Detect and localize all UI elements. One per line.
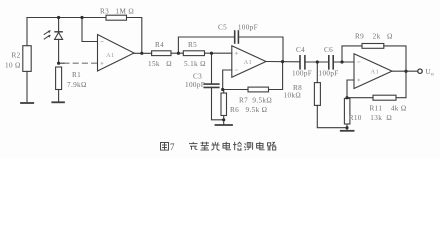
wire R10 bottom [346, 124, 348, 130]
svg-text:7: 7 [170, 142, 175, 152]
svg-text:R7 9.5kΩ: R7 9.5kΩ [239, 97, 272, 105]
wire R6 bottom to ground node [223, 116, 225, 125]
node photodiode top [57, 16, 60, 19]
wire left column to R2 [26, 18, 28, 46]
svg-text:R6 9.5k Ω: R6 9.5k Ω [230, 106, 267, 114]
resistor R1 [56, 67, 62, 90]
caption char 图 [161, 143, 169, 151]
svg-text:C6: C6 [324, 46, 333, 54]
A2 minus [235, 69, 238, 71]
wire C4 to C6 [305, 61, 329, 63]
wire A3 output [392, 70, 418, 72]
svg-text:R5: R5 [188, 41, 197, 49]
capacitor C3 [204, 84, 219, 87]
caption char 路 [268, 142, 276, 150]
wire R4 to R5 [171, 52, 183, 54]
wire R2 to ground [26, 71, 28, 102]
node A2 fb [221, 88, 224, 91]
op-amp A3 [354, 54, 392, 89]
wire R8 drop [316, 62, 318, 83]
wire R1 to ground [58, 90, 60, 102]
svg-text:C4: C4 [296, 46, 305, 54]
wire top rail [27, 17, 106, 19]
wire C6 to A3 - input [333, 61, 354, 63]
svg-text:R9 2k Ω: R9 2k Ω [355, 33, 393, 41]
wire top rail tap to opamp - input [82, 18, 98, 42]
node A2 output [281, 60, 284, 63]
caption char 完 [189, 142, 198, 150]
A1 minus [101, 41, 104, 43]
wire R11 from node [347, 97, 373, 99]
wire C5 to output rail [238, 37, 283, 62]
light arrow 1 [44, 30, 51, 34]
wire R9 branch up [342, 46, 362, 62]
resistor R7 [248, 87, 269, 92]
node C3/R6 ground [222, 118, 225, 121]
caption char 整 [201, 142, 210, 150]
wire node to opamp + input [59, 62, 64, 64]
svg-text:R1: R1 [72, 71, 81, 79]
wire C5 branch up [178, 37, 234, 53]
op-amp A1 [98, 35, 135, 72]
svg-text:5.1k Ω: 5.1k Ω [184, 60, 206, 68]
wire A3 + input down [347, 80, 354, 98]
A2 plus [235, 52, 238, 54]
A3 plus [357, 79, 360, 81]
svg-text:15k Ω: 15k Ω [148, 60, 172, 68]
op-amp A2 [232, 46, 266, 78]
node C6/R9 [340, 60, 343, 63]
resistor R11 [373, 95, 396, 100]
A3 minus [357, 61, 360, 63]
ground below R1 [52, 101, 64, 103]
resistor R4 [152, 51, 171, 56]
wire A2 - input down [223, 70, 232, 90]
caption char 光 [211, 142, 219, 150]
wire C3 bottom to ground node [212, 87, 224, 119]
wire A2 output [266, 61, 300, 63]
light arrow 2 [44, 35, 51, 39]
ground below R10 [341, 130, 354, 132]
svg-text:R4: R4 [155, 41, 164, 49]
svg-text:A1: A1 [244, 59, 253, 66]
node R4/R5 [177, 52, 180, 55]
resistor R2 [23, 46, 31, 72]
svg-text:R2: R2 [12, 52, 21, 60]
svg-text:o: o [431, 72, 434, 78]
resistor R9 [362, 44, 384, 49]
svg-text:A1: A1 [106, 52, 115, 59]
wire photodiode drop [58, 18, 60, 32]
ground below R6/C3 [216, 124, 233, 126]
node R10/R11 [345, 96, 348, 99]
wire R5 to A2 + input [205, 52, 232, 54]
svg-text:R11 4k Ω: R11 4k Ω [370, 105, 407, 113]
node C4/R8 [316, 60, 319, 63]
photodiode VD cathode bar [55, 31, 62, 33]
node A3 output [404, 70, 407, 73]
node A1 output [140, 52, 143, 55]
wire R7 to output rail [269, 62, 283, 90]
svg-text:100pF: 100pF [185, 81, 205, 89]
node feedback tap top [80, 16, 83, 19]
output terminal circle [418, 69, 422, 73]
capacitor C6 [329, 56, 333, 69]
caption char 电 (2) [257, 142, 265, 150]
caption char 7 [170, 142, 175, 152]
resistor R10 [344, 99, 350, 125]
svg-text:R10 13k Ω: R10 13k Ω [349, 114, 392, 122]
wire A1 output [134, 52, 152, 54]
capacitor C4 [300, 56, 305, 69]
resistor R3 [106, 15, 127, 20]
svg-text:C5 100pF: C5 100pF [218, 24, 258, 32]
svg-text:10kΩ: 10kΩ [284, 92, 302, 100]
wire R9 to output rail [384, 46, 406, 71]
ground below R2 [21, 102, 33, 104]
wire R6 top [223, 90, 225, 94]
svg-text:100pF: 100pF [292, 70, 312, 78]
node R5/C3 [210, 52, 213, 55]
caption 图7 完整光电检测电路 (drawn strokes, no CJK font available) [161, 142, 276, 152]
node photodiode/R1 [57, 62, 60, 65]
resistor R8 [314, 83, 320, 106]
node R8/R10 ground [345, 126, 348, 129]
A1 plus [101, 62, 104, 64]
capacitor C5 [235, 31, 239, 43]
wire R11 to output rail [396, 71, 406, 98]
svg-text:10 Ω: 10 Ω [5, 62, 21, 70]
photodiode VD triangle [55, 32, 63, 39]
svg-text:C3: C3 [193, 73, 202, 81]
svg-text:7.9kΩ: 7.9kΩ [67, 81, 87, 89]
caption char 电 [223, 142, 231, 150]
resistor R6 [221, 93, 227, 116]
wire A2 feedback bottom [223, 89, 248, 91]
caption char 测 [244, 142, 252, 150]
wire R3 to stage1 output rail [127, 18, 142, 54]
resistor R5 [183, 51, 204, 56]
wire R8 bottom to ground node [317, 105, 347, 127]
wire photodiode to node [58, 39, 60, 63]
junction node dots [57, 16, 408, 129]
svg-text:A1: A1 [371, 69, 380, 76]
wire C3 drop [211, 53, 213, 84]
caption char 检 [233, 142, 242, 150]
svg-text:100pF: 100pF [319, 70, 339, 78]
svg-text:R3 1M Ω: R3 1M Ω [100, 8, 134, 16]
input polarity marks [101, 42, 361, 82]
